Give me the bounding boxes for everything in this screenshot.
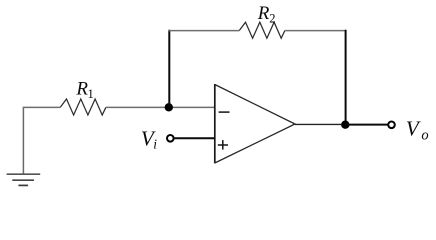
resistor R1 [60,99,106,115]
svg-text:1: 1 [88,87,94,101]
svg-text:R: R [257,3,270,24]
wire feedback top right segment [285,30,347,32]
minus sign (inverting input) [219,111,230,113]
wire op-amp output to node B [295,123,346,125]
svg-text:o: o [421,128,428,144]
terminal circle Vo [388,122,395,129]
node B junction dot [341,121,349,129]
resistor R2 [239,22,285,38]
terminal circle Vi [167,135,174,142]
svg-text:2: 2 [269,11,275,25]
wire feedback riser left [168,30,170,108]
svg-text:V: V [406,117,421,141]
svg-text:i: i [153,136,157,151]
svg-text:R: R [75,79,88,100]
wire feedback top left segment [168,30,239,32]
wire node B to Vo terminal [346,124,389,126]
op-amp U1 [214,84,216,163]
wire R1 to node A [106,106,169,108]
wire feedback riser right [345,30,347,125]
ground [7,107,41,185]
plus sign (non-inverting input) [218,140,228,150]
wire ground to R1 [23,106,61,108]
wire node A to op-amp inverting input [169,106,214,108]
wire Vi to op-amp non-inverting input [174,137,215,139]
node A junction dot [165,103,173,111]
